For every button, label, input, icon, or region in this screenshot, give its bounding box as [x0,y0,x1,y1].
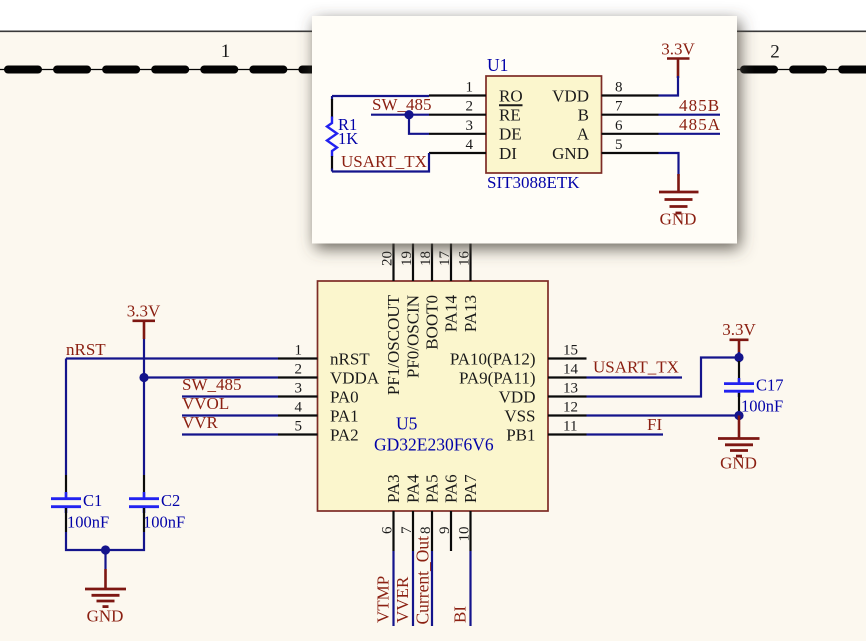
wire 3.3V to C17 [738,352,740,363]
svg-text:7: 7 [615,99,623,115]
svg-text:3: 3 [466,118,474,134]
svg-text:10: 10 [457,527,473,542]
svg-text:VVER: VVER [393,576,412,623]
power port 3.3V card [661,40,695,79]
pin 11 stub [548,433,587,435]
svg-text:B: B [578,106,589,125]
wire SW_485 to pin3 [409,115,429,134]
svg-text:5: 5 [295,419,303,435]
pin 14 stub [548,376,587,378]
pin 19 stub [412,244,414,282]
ground GND card [659,174,699,229]
pin 16 stub [469,244,471,282]
svg-text:VSS: VSS [504,406,535,425]
svg-text:U1: U1 [487,55,508,75]
svg-text:PA7: PA7 [461,474,480,503]
wire nRST left vertical to C1 [65,359,67,476]
svg-text:GND: GND [552,144,589,163]
svg-text:PB1: PB1 [506,425,535,444]
ic U5 body [318,281,549,511]
wire USART_TX pin14 [587,376,683,378]
svg-text:8: 8 [418,527,434,535]
wire 3.3V to VDD pin8 [659,76,679,96]
svg-text:C2: C2 [161,491,180,510]
svg-text:17: 17 [437,251,453,267]
pin 12 stub [548,414,587,416]
ground GND left [85,569,126,626]
pin 4 stub [278,414,318,416]
svg-text:SIT3088ETK: SIT3088ETK [487,173,580,192]
svg-text:PA1: PA1 [330,406,359,425]
svg-text:RO: RO [499,86,523,105]
U1 pin 6 stub [602,133,659,135]
svg-text:FI: FI [647,415,662,434]
svg-text:USART_TX: USART_TX [593,358,679,377]
svg-text:U5: U5 [396,414,418,434]
svg-text:RE: RE [499,106,521,125]
svg-text:GD32E230F6V6: GD32E230F6V6 [374,435,494,455]
svg-text:PA2: PA2 [330,425,359,444]
U1 pin 1 stub [429,94,486,96]
svg-text:C17: C17 [756,376,784,395]
ic U1 body [486,76,602,173]
svg-text:2: 2 [770,42,780,63]
svg-text:3.3V: 3.3V [127,302,161,321]
U1 pin 3 stub [429,133,486,135]
svg-text:6: 6 [380,526,396,534]
svg-text:13: 13 [563,381,578,397]
svg-text:PA9(PA11): PA9(PA11) [459,368,536,387]
pin 9 stub [450,511,452,551]
junction VSS node right [734,411,743,420]
wire VDDA pin2 [144,376,278,378]
svg-text:PA10(PA12): PA10(PA12) [450,349,536,368]
U1 pin 2 stub [429,114,486,116]
svg-text:4: 4 [295,400,303,416]
pin 10 stub [469,511,471,551]
svg-text:VDDA: VDDA [330,368,380,387]
wire GND drop left [104,550,106,569]
svg-text:GND: GND [720,454,757,473]
wire VVR pin5 [182,433,278,435]
capacitor C1 [51,475,81,532]
svg-text:nRST: nRST [330,349,370,368]
wire C1 bottom [66,532,144,550]
wire DI to R1 bottom [332,153,429,172]
svg-text:12: 12 [563,400,578,416]
pin 13 stub [548,395,587,397]
svg-text:1K: 1K [338,129,358,148]
pin 6 stub [392,511,394,551]
svg-text:VVOL: VVOL [182,394,229,413]
wire VSS pin12 [587,411,740,416]
svg-text:VDD: VDD [499,387,536,406]
wire VTMP pin6 [392,551,394,626]
svg-text:1: 1 [466,80,474,96]
svg-text:3: 3 [295,381,303,397]
svg-text:USART_TX: USART_TX [341,152,427,171]
junction SW_485 node [404,110,413,119]
svg-text:485A: 485A [679,115,721,134]
junction VDDA node [139,373,148,382]
svg-text:8: 8 [615,80,623,96]
junction VDD node right [734,353,743,362]
pin 2 stub [278,376,318,378]
wire 3.3V to VDDA vertical [143,339,145,475]
svg-text:485B: 485B [679,96,720,115]
wire GND pin5 [659,153,679,176]
svg-text:15: 15 [563,343,578,359]
pin 8 stub [431,511,433,551]
svg-text:2: 2 [466,99,474,115]
wire SW_485 to pin2 [371,114,429,116]
svg-text:PA4: PA4 [404,474,423,503]
svg-text:3.3V: 3.3V [661,40,695,59]
svg-text:PA14: PA14 [442,295,461,333]
pin 18 stub [431,244,433,282]
power port 3.3V right [722,320,756,354]
wire VVOL pin4 [182,414,278,416]
svg-text:nRST: nRST [66,340,106,359]
wire nRST horizontal [66,357,278,359]
overlay card background [312,16,737,244]
pin 17 stub [450,244,452,282]
svg-text:VVR: VVR [182,413,219,432]
resistor R1 [327,96,337,172]
wire R1 top to pin1 [332,95,429,97]
wire 485A pin6 [659,133,721,135]
power port 3.3V left [127,302,161,340]
svg-text:100nF: 100nF [143,513,185,532]
wire VDD pin13 to 3.3V [587,358,740,397]
wire 485B pin7 [659,114,721,116]
svg-text:3.3V: 3.3V [722,320,756,339]
svg-text:19: 19 [399,251,415,266]
svg-text:PA13: PA13 [461,295,480,332]
svg-text:PA0: PA0 [330,387,359,406]
svg-text:DE: DE [499,125,522,144]
wire BI pin10 [469,551,471,626]
pin 1 stub [278,357,318,359]
svg-text:9: 9 [437,527,453,535]
svg-text:2: 2 [295,362,303,378]
U1 pin 5 stub [602,152,659,154]
wire SW_485 pin3 [182,395,278,397]
U1 pin 2 name RE with overbar [499,105,523,124]
svg-text:GND: GND [87,607,124,626]
wire FI pin11 [587,433,664,435]
svg-text:14: 14 [563,362,579,378]
pin 20 stub [392,244,394,282]
svg-text:PA5: PA5 [423,474,442,503]
pin 3 stub [278,395,318,397]
capacitor C2 [129,475,159,532]
svg-text:11: 11 [563,419,577,435]
svg-text:C1: C1 [83,491,102,510]
svg-text:PA3: PA3 [384,474,403,503]
svg-text:PF0/OSCIN: PF0/OSCIN [404,295,423,378]
svg-text:100nF: 100nF [67,513,109,532]
U1 pin 7 stub [602,114,659,116]
sheet zone divider dashed line [0,69,866,71]
svg-text:4: 4 [466,137,474,153]
svg-text:VTMP: VTMP [374,576,393,623]
pin 7 stub [412,511,414,551]
U1 pin 4 stub [429,152,486,154]
svg-text:20: 20 [380,251,396,266]
svg-text:1: 1 [295,343,303,359]
svg-text:A: A [577,125,590,144]
svg-text:VDD: VDD [552,86,589,105]
wire VVER pin7 [412,551,414,626]
pin 5 stub [278,433,318,435]
svg-text:Current_Out: Current_Out [413,536,433,625]
svg-text:5: 5 [615,137,623,153]
svg-text:BI: BI [451,606,470,623]
svg-text:6: 6 [615,118,623,134]
svg-text:1: 1 [221,41,231,62]
wire Current_Out pin8 [431,551,433,626]
svg-text:100nF: 100nF [741,397,783,416]
svg-text:18: 18 [418,251,434,266]
sheet border line [0,30,866,32]
svg-text:16: 16 [457,251,473,267]
svg-text:PA6: PA6 [442,474,461,503]
junction GND node left [101,545,110,554]
svg-text:SW_485: SW_485 [182,375,242,394]
svg-text:PF1/OSCOUT: PF1/OSCOUT [384,294,403,395]
ground GND right [718,416,760,473]
U1 pin 8 stub [602,94,659,96]
svg-text:7: 7 [399,526,415,534]
svg-text:BOOT0: BOOT0 [423,295,442,350]
svg-text:DI: DI [499,144,517,163]
svg-text:SW_485: SW_485 [372,95,432,114]
svg-text:GND: GND [660,210,697,229]
capacitor C17 [724,361,754,411]
pin 15 stub [548,357,587,359]
